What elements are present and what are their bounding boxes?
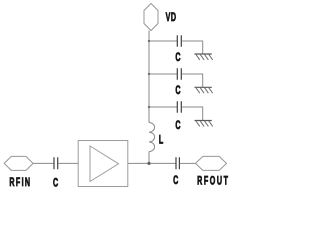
label C (C4 value) xyxy=(53,177,58,190)
label L (L1 value) xyxy=(159,134,163,147)
wire: branch 1 right segment (C1 to ground stem) xyxy=(182,41,203,54)
wire: C4 to amplifier input xyxy=(58,162,78,164)
capacitor C2 xyxy=(177,68,181,80)
op-amp U1 (amplifier block) xyxy=(78,141,128,187)
label C (C3 value) xyxy=(175,119,180,132)
capacitor C4 (input blocking) xyxy=(54,157,58,169)
svg-text:RFOUT: RFOUT xyxy=(197,175,230,188)
label RFOUT xyxy=(197,175,230,188)
svg-text:C: C xyxy=(53,177,58,190)
ground (branch 2) xyxy=(195,87,213,93)
wire: branch 1 left segment (rail to C1) xyxy=(149,40,177,42)
node: rail tap branch 2 xyxy=(148,73,150,75)
label VD xyxy=(166,11,177,24)
pad VD (supply pad P3) xyxy=(144,4,158,31)
pad RFOUT (output pad P2) xyxy=(196,156,227,170)
svg-text:C: C xyxy=(173,174,178,187)
wire: branch 2 left segment (rail to C2) xyxy=(149,73,177,75)
wire: inductor bottom to output node xyxy=(148,152,150,164)
svg-text:RFIN: RFIN xyxy=(9,176,31,189)
svg-text:C: C xyxy=(175,51,180,64)
label C (C2 value) xyxy=(175,84,180,97)
wire: C5 to RFOUT pad xyxy=(180,162,196,164)
wire: VD rail from pad down to inductor top xyxy=(148,31,150,123)
wire: RFIN pad to C4 xyxy=(33,162,54,164)
capacitor C1 xyxy=(177,35,181,47)
wire: branch 3 left segment (rail to C3) xyxy=(149,106,177,108)
svg-text:VD: VD xyxy=(166,11,177,24)
svg-text:C: C xyxy=(175,119,180,132)
node A (output junction with L1) xyxy=(147,162,150,165)
inductor L1 xyxy=(149,123,155,152)
wire: branch 3 right segment (C3 to ground stem) xyxy=(182,107,203,121)
pad RFIN (input pad P1) xyxy=(4,156,33,170)
label RFIN xyxy=(9,176,31,189)
wire: branch 2 right segment (C2 to ground stem) xyxy=(182,74,203,87)
label C (C1 value) xyxy=(175,51,180,64)
ground (branch 1) xyxy=(195,54,213,60)
node: rail tap branch 1 xyxy=(148,40,150,42)
capacitor C5 (output blocking) xyxy=(176,157,179,169)
label C (C5 value) xyxy=(173,174,178,187)
node: rail tap branch 3 xyxy=(148,106,150,108)
wire: amplifier output to C5 xyxy=(128,162,176,164)
capacitor C3 xyxy=(177,101,181,113)
svg-text:L: L xyxy=(159,134,163,147)
ground (branch 3) xyxy=(195,121,213,127)
svg-text:C: C xyxy=(175,84,180,97)
